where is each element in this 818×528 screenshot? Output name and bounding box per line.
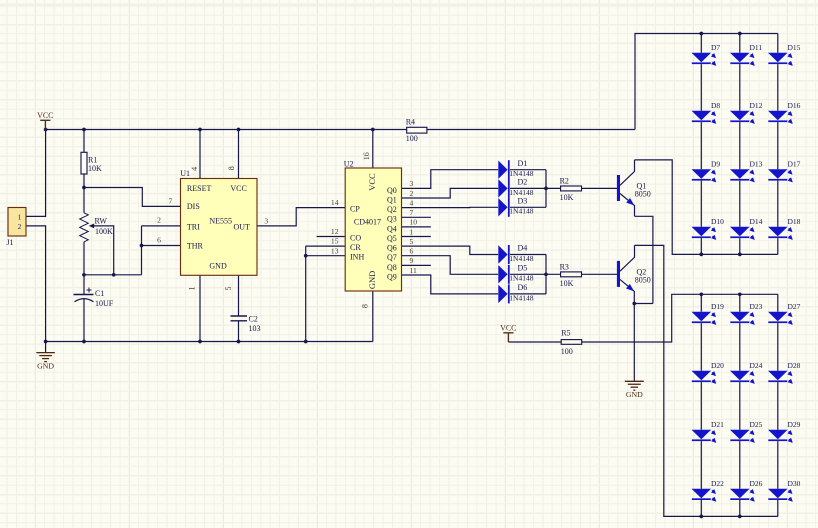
svg-text:6: 6 — [410, 247, 414, 256]
svg-text:D22: D22 — [711, 479, 724, 488]
svg-text:13: 13 — [331, 246, 339, 255]
svg-text:VCC: VCC — [230, 184, 246, 193]
svg-text:4: 4 — [410, 198, 414, 207]
svg-text:10: 10 — [410, 218, 418, 227]
svg-text:INH: INH — [350, 253, 364, 262]
svg-text:11: 11 — [410, 266, 418, 275]
svg-text:3: 3 — [410, 179, 414, 188]
svg-text:D11: D11 — [750, 43, 763, 52]
svg-text:12: 12 — [331, 227, 339, 236]
svg-text:D10: D10 — [711, 217, 724, 226]
svg-text:NE555: NE555 — [209, 217, 232, 226]
svg-text:8050: 8050 — [635, 275, 651, 284]
svg-text:Q3: Q3 — [387, 215, 397, 224]
svg-text:Q1: Q1 — [387, 195, 397, 204]
svg-text:U2: U2 — [344, 160, 354, 169]
svg-text:1N4148: 1N4148 — [509, 207, 533, 216]
svg-text:4: 4 — [190, 167, 199, 171]
svg-text:100K: 100K — [95, 227, 113, 236]
svg-text:3: 3 — [264, 217, 268, 226]
svg-text:R5: R5 — [561, 328, 570, 337]
svg-text:R2: R2 — [560, 177, 569, 186]
svg-text:6: 6 — [157, 236, 161, 245]
svg-text:D13: D13 — [750, 160, 763, 169]
svg-text:1N4148: 1N4148 — [509, 254, 533, 263]
svg-text:D7: D7 — [711, 43, 720, 52]
svg-text:D30: D30 — [788, 479, 801, 488]
svg-text:D24: D24 — [750, 361, 763, 370]
svg-text:THR: THR — [187, 242, 204, 251]
svg-text:D17: D17 — [788, 160, 801, 169]
svg-text:Q0: Q0 — [387, 186, 397, 195]
svg-text:D16: D16 — [788, 101, 801, 110]
svg-text:5: 5 — [224, 287, 233, 291]
svg-text:Q8: Q8 — [387, 263, 397, 272]
svg-text:J1: J1 — [6, 238, 13, 247]
svg-text:C1: C1 — [95, 289, 104, 298]
svg-text:C2: C2 — [249, 314, 258, 323]
svg-text:TRI: TRI — [187, 222, 200, 231]
svg-text:D4: D4 — [518, 244, 528, 253]
svg-text:1N4148: 1N4148 — [509, 293, 533, 302]
svg-text:1N4148: 1N4148 — [509, 274, 533, 283]
svg-text:GND: GND — [626, 390, 643, 399]
svg-text:RW: RW — [95, 217, 108, 226]
svg-text:VCC: VCC — [500, 323, 516, 332]
svg-text:8050: 8050 — [635, 190, 651, 199]
svg-text:CR: CR — [350, 243, 361, 252]
svg-text:1N4148: 1N4148 — [509, 188, 533, 197]
svg-text:D14: D14 — [750, 217, 763, 226]
svg-text:U1: U1 — [180, 169, 190, 178]
svg-text:2: 2 — [18, 223, 22, 231]
svg-text:D25: D25 — [750, 420, 763, 429]
svg-text:Q9: Q9 — [387, 272, 397, 281]
svg-text:1: 1 — [410, 227, 414, 236]
svg-text:8: 8 — [227, 166, 236, 170]
svg-text:D1: D1 — [518, 159, 528, 168]
svg-text:RESET: RESET — [187, 184, 212, 193]
svg-text:Q6: Q6 — [387, 244, 397, 253]
svg-text:VCC: VCC — [367, 173, 377, 191]
svg-text:100: 100 — [406, 134, 418, 143]
svg-text:16: 16 — [362, 152, 371, 160]
svg-text:Q2: Q2 — [387, 205, 397, 214]
svg-text:14: 14 — [331, 198, 339, 207]
svg-text:D26: D26 — [750, 479, 763, 488]
svg-text:GND: GND — [37, 362, 54, 371]
svg-text:15: 15 — [331, 237, 339, 246]
svg-text:10K: 10K — [560, 193, 574, 202]
svg-text:9: 9 — [410, 256, 414, 265]
svg-text:100: 100 — [561, 347, 573, 356]
svg-text:10K: 10K — [560, 279, 574, 288]
svg-text:D5: D5 — [518, 264, 528, 273]
svg-text:D20: D20 — [711, 361, 724, 370]
svg-text:CO: CO — [350, 234, 361, 243]
svg-text:DIS: DIS — [187, 202, 200, 211]
svg-text:8: 8 — [361, 304, 370, 308]
svg-text:D9: D9 — [711, 160, 720, 169]
svg-text:D2: D2 — [518, 178, 528, 187]
svg-text:Q5: Q5 — [387, 234, 397, 243]
svg-text:D29: D29 — [788, 420, 801, 429]
svg-text:R4: R4 — [406, 118, 415, 127]
svg-text:R3: R3 — [560, 263, 569, 272]
svg-text:D21: D21 — [711, 420, 724, 429]
svg-text:103: 103 — [249, 324, 261, 333]
svg-text:VCC: VCC — [37, 111, 53, 120]
svg-text:D8: D8 — [711, 101, 720, 110]
svg-text:D18: D18 — [788, 217, 801, 226]
svg-text:5: 5 — [410, 237, 414, 246]
svg-text:GND: GND — [209, 261, 227, 270]
svg-text:7: 7 — [410, 208, 414, 217]
svg-text:D27: D27 — [788, 302, 801, 311]
svg-text:D15: D15 — [788, 43, 801, 52]
svg-text:CD4017: CD4017 — [354, 218, 381, 227]
svg-text:GND: GND — [367, 271, 377, 289]
svg-text:D3: D3 — [518, 197, 528, 206]
svg-text:7: 7 — [169, 196, 173, 205]
svg-text:OUT: OUT — [234, 222, 251, 231]
svg-text:10K: 10K — [88, 164, 102, 173]
svg-text:2: 2 — [410, 189, 414, 198]
svg-text:D23: D23 — [750, 302, 763, 311]
svg-text:10UF: 10UF — [95, 299, 114, 308]
svg-text:D19: D19 — [711, 302, 724, 311]
svg-text:2: 2 — [157, 216, 161, 225]
svg-text:D12: D12 — [750, 101, 763, 110]
svg-text:Q4: Q4 — [387, 224, 397, 233]
svg-text:CP: CP — [350, 205, 360, 214]
svg-text:D6: D6 — [518, 283, 528, 292]
svg-text:1: 1 — [18, 213, 22, 221]
svg-text:Q7: Q7 — [387, 253, 397, 262]
svg-text:D28: D28 — [788, 361, 801, 370]
svg-text:1: 1 — [188, 287, 197, 291]
